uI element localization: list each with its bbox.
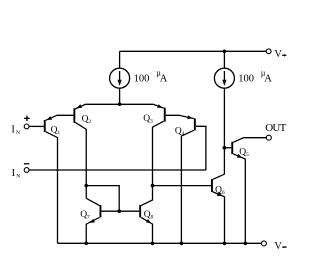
svg-text:6: 6 [222,190,225,196]
svg-text:100: 100 [238,74,254,85]
svg-text:5: 5 [246,152,249,158]
label V+ [274,49,286,60]
transistor Q6 [211,174,225,243]
wire IN- to Q4 base loop [29,169,206,171]
label IN+ [11,124,20,135]
svg-text:A: A [264,74,272,85]
wire CS2 output down to Q5 base and Q6 collector [223,88,225,174]
transistor Q1 [44,115,74,243]
node Q5 emitter on rail [244,242,248,246]
node Q7 collector tie [84,184,88,188]
label Q4 [175,126,185,137]
node Q7 emitter on rail [84,242,88,246]
label Q2 [82,114,92,125]
svg-text:7: 7 [87,215,90,221]
node Q5 base [223,146,227,150]
transistor Q2 [73,104,119,198]
current source I1 100uA [110,51,130,104]
terminal IN- [24,164,29,173]
label Q5 [239,148,249,159]
svg-text:100: 100 [134,74,150,85]
node Q7/Q8 base line [117,209,121,213]
svg-text:8: 8 [151,215,154,221]
svg-text:V: V [274,241,282,252]
terminal V- [261,241,266,246]
svg-text:A: A [160,74,168,85]
svg-text:N: N [16,173,20,179]
svg-text:OUT: OUT [265,122,286,134]
label Q6 [215,186,225,197]
wire IN+ to Q1 base [29,125,44,127]
svg-text:3: 3 [150,118,153,124]
node Q4 collector on rail [180,242,184,246]
wire Q5 base [224,147,231,149]
svg-text:2: 2 [88,119,91,125]
terminal V+ [266,49,271,54]
label Q1 [51,125,61,136]
svg-text:V: V [274,49,282,60]
wire Q6 base from Q3/Q8 collectors [153,185,212,187]
wire bottom rail V- [58,242,262,244]
label Q7 [80,210,90,221]
transistor Q8 [139,186,152,244]
node CS1 / Q2 Q3 emitters [118,102,122,106]
label IN- [12,168,21,179]
transistor Q5 [231,138,266,244]
node top rail / CS2 junction [223,50,227,54]
svg-text:1: 1 [57,130,60,136]
svg-text:N: N [16,130,20,136]
svg-text:4: 4 [182,131,185,137]
svg-text:I: I [11,124,15,135]
current source I2 100uA [214,51,234,88]
node Q6 emitter on rail [223,242,227,246]
label Q8 [144,210,154,221]
transistor Q7 [86,198,139,243]
terminal OUT [266,135,271,140]
svg-text:I: I [12,168,16,179]
node Q3/Q8 collectors and Q6 base [151,184,155,188]
label V- [274,241,286,252]
transistor Q3 [120,104,166,185]
transistor Q4 [166,115,206,243]
label Q3 [143,114,153,125]
label 100uA (I1) [134,69,168,85]
wire top rail V+ [120,50,267,52]
label 100uA (I2) [238,69,272,85]
node Q8 emitter on rail [151,242,155,246]
wire Q7 collector-base tie [86,186,119,212]
terminal IN+ [24,116,29,129]
